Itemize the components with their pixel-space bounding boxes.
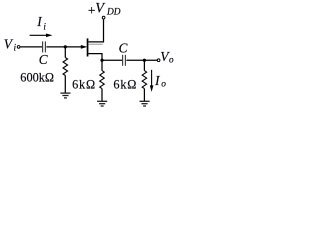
wire Vi to capacitor C1 <box>20 46 42 48</box>
transistor Q1 source lead <box>88 54 102 61</box>
wire gate node down to R1 <box>64 47 66 58</box>
svg-text:600kΩ: 600kΩ <box>20 70 54 84</box>
capacitor C1 <box>43 41 46 52</box>
node VDD terminal <box>102 16 105 19</box>
wire R1 to ground <box>64 76 66 93</box>
svg-text:I: I <box>36 14 42 29</box>
svg-text:C: C <box>39 52 48 67</box>
transistor Q1 drain lead to VDD <box>88 19 103 42</box>
current arrow Ii <box>30 34 47 36</box>
wire source node down to R2 <box>101 60 103 70</box>
transistor Q1 inner channel line <box>88 43 102 45</box>
svg-text:o: o <box>169 55 174 65</box>
svg-text:i: i <box>43 22 46 32</box>
transistor Q1 gate/channel bar <box>87 38 89 56</box>
svg-text:6kΩ: 6kΩ <box>113 77 137 91</box>
ground G2 <box>97 101 107 106</box>
svg-text:i: i <box>14 44 17 54</box>
resistor R2 6k zigzag <box>100 71 105 89</box>
wire C1 to gate with junction <box>46 46 81 48</box>
junction source node dot <box>100 59 103 62</box>
ground G1 <box>60 93 70 98</box>
wire R3 to ground <box>143 89 145 101</box>
svg-text:C: C <box>119 41 128 56</box>
junction output node dot <box>143 59 146 62</box>
ground G3 <box>140 101 150 106</box>
node Vi terminal <box>17 46 20 49</box>
resistor R1 600k zigzag <box>63 58 68 76</box>
svg-text:DD: DD <box>106 8 121 18</box>
wire R2 to ground <box>101 89 103 101</box>
svg-text:6kΩ: 6kΩ <box>72 77 96 91</box>
wire C2 to Vo <box>126 59 157 61</box>
current arrow Io <box>151 70 153 86</box>
junction node gate dot <box>64 45 67 48</box>
wire output node down to R3 <box>143 60 145 70</box>
gate arrowhead <box>81 45 88 49</box>
wire source node to capacitor C2 <box>102 59 122 61</box>
node Vo terminal <box>157 59 160 62</box>
resistor R3 6k zigzag <box>142 71 147 89</box>
svg-text:o: o <box>161 79 166 89</box>
capacitor C2 <box>123 55 126 66</box>
